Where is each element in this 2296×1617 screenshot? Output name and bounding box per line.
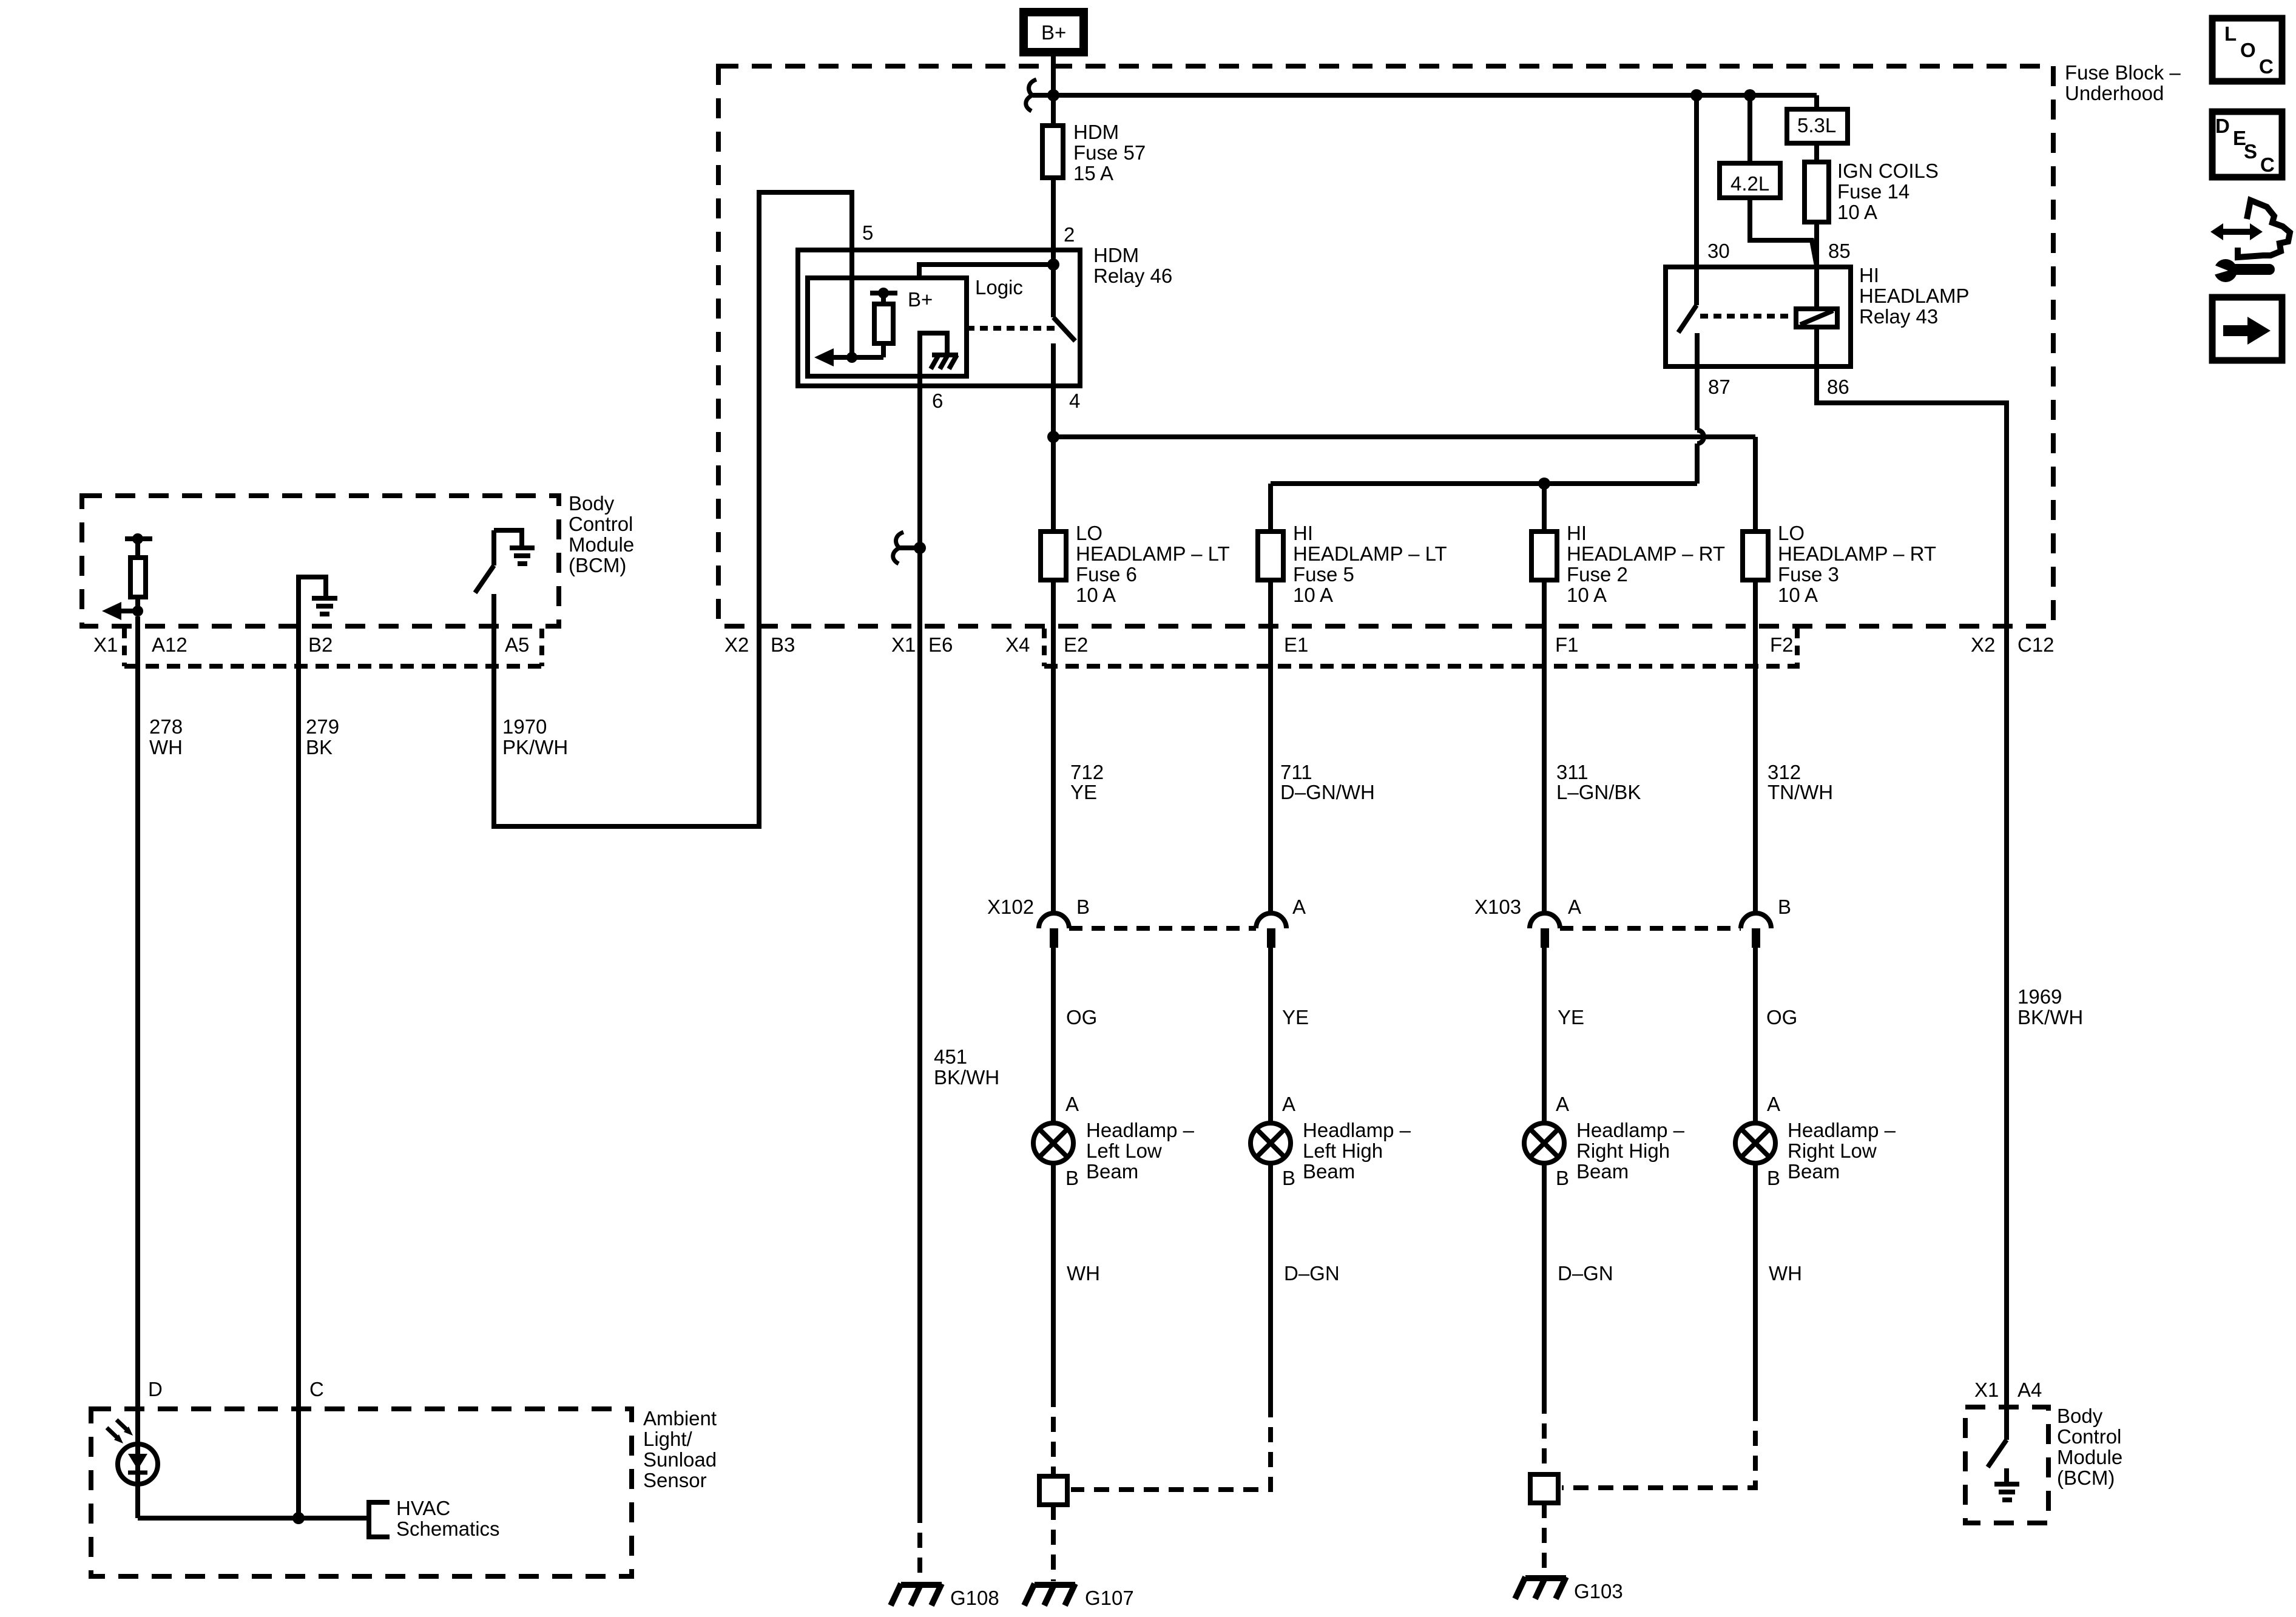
svg-text:Fuse 6: Fuse 6: [1076, 563, 1137, 586]
svg-text:86: 86: [1827, 376, 1849, 398]
svg-text:HEADLAMP – RT: HEADLAMP – RT: [1778, 542, 1936, 565]
lamp Headlamp Left Low Beam: [1033, 1093, 1195, 1189]
wire relay46 pin5 internal: [849, 250, 854, 357]
relay46 internal B+ node: [870, 288, 933, 311]
svg-text:HVAC: HVAC: [396, 1497, 450, 1519]
svg-text:BK/WH: BK/WH: [2017, 1006, 2083, 1028]
svg-text:TN/WH: TN/WH: [1768, 781, 1833, 803]
wire bus to relay43 pin30: [1694, 95, 1699, 267]
svg-text:C12: C12: [2017, 633, 2055, 656]
svg-text:Beam: Beam: [1086, 1160, 1138, 1183]
splice connector right: [1530, 1474, 1558, 1503]
wire off-page curl at B+ bus: [1026, 79, 1053, 111]
svg-text:(BCM): (BCM): [569, 554, 626, 576]
svg-text:A12: A12: [152, 633, 187, 656]
svg-text:A: A: [1568, 896, 1581, 918]
svg-text:C: C: [2260, 154, 2275, 176]
svg-text:HDM: HDM: [1093, 244, 1139, 266]
svg-text:D–GN/WH: D–GN/WH: [1280, 781, 1375, 803]
svg-text:5.3L: 5.3L: [1797, 114, 1836, 137]
wire BCM A12 down (278 WH): [135, 616, 140, 1518]
label wire 279 BK: [306, 715, 339, 758]
svg-text:L–GN/BK: L–GN/BK: [1556, 781, 1641, 803]
fuse LO HEADLAMP LT Fuse 6: [1041, 522, 1230, 606]
photodiode sensor: [107, 1420, 158, 1484]
svg-text:1970: 1970: [502, 715, 547, 738]
svg-text:5: 5: [862, 221, 873, 244]
svg-text:A4: A4: [2017, 1379, 2042, 1401]
label wire 1970 PK/WH: [502, 715, 568, 758]
svg-text:BK/WH: BK/WH: [934, 1066, 999, 1089]
relay43 dashed control line: [1700, 314, 1791, 319]
wire low beam feed bus from relay46 pin4: [1053, 437, 1755, 532]
svg-text:Body: Body: [2057, 1405, 2103, 1427]
svg-text:Module: Module: [2057, 1446, 2122, 1468]
svg-text:Beam: Beam: [1788, 1160, 1840, 1183]
svg-text:A: A: [1556, 1093, 1569, 1115]
label wire 311 L-GN/BK: [1556, 761, 1641, 803]
svg-text:711: 711: [1280, 761, 1312, 783]
wire relay43 pin86 to C12: [1817, 366, 2007, 1440]
svg-text:OG: OG: [1066, 1006, 1097, 1028]
svg-text:4: 4: [1069, 390, 1080, 412]
icon wrench: [2210, 259, 2269, 282]
svg-text:Sunload: Sunload: [643, 1448, 717, 1471]
node E6 stub junction: [893, 532, 926, 564]
wire B+ to fuse 57: [1051, 56, 1056, 126]
svg-text:Fuse 5: Fuse 5: [1293, 563, 1354, 586]
ground G108: [891, 1584, 999, 1609]
ground G107: [1024, 1584, 1134, 1609]
svg-text:HI: HI: [1859, 264, 1879, 286]
svg-text:712: 712: [1070, 761, 1104, 783]
svg-text:D: D: [2215, 115, 2230, 137]
connector X103: [1474, 896, 1791, 948]
svg-text:F2: F2: [1770, 633, 1794, 656]
svg-text:X2: X2: [724, 633, 749, 656]
wire dashed right high to splice: [1542, 1399, 1547, 1474]
svg-text:C: C: [2259, 55, 2274, 78]
node C junction: [292, 1512, 305, 1524]
label wire 451 BK/WH: [934, 1045, 999, 1089]
wire fuse6 to X102-B: [1051, 580, 1056, 915]
wire X102-A to left high bulb: [1268, 947, 1273, 1123]
svg-text:C: C: [309, 1378, 324, 1400]
svg-text:311: 311: [1556, 761, 1589, 783]
wire fuse2 to X103-A: [1542, 580, 1547, 915]
relay46 dashed control line: [967, 326, 1058, 331]
label wire 712 YE: [1070, 761, 1104, 803]
svg-text:B+: B+: [1041, 21, 1066, 44]
svg-text:Control: Control: [569, 513, 633, 535]
label wire 1969 BK/WH: [2017, 985, 2083, 1028]
svg-text:Headlamp –: Headlamp –: [1303, 1119, 1411, 1141]
svg-text:Light/: Light/: [643, 1428, 693, 1450]
svg-text:LO: LO: [1076, 522, 1102, 544]
wire dashed left high to splice: [1071, 1402, 1271, 1490]
svg-text:Left Low: Left Low: [1086, 1139, 1162, 1162]
wire relay43 pin87 with hop: [1697, 366, 1704, 484]
fuse HDM Fuse 57: [1042, 121, 1146, 184]
ground earth at BCM B2: [299, 577, 337, 626]
relay43 switch blade: [1678, 267, 1697, 366]
wire sensor bottom run: [138, 1516, 369, 1521]
wire X103-A to right high bulb: [1542, 947, 1547, 1123]
svg-text:10 A: 10 A: [1293, 584, 1333, 606]
wire X102-B to left low bulb: [1051, 947, 1056, 1123]
BCM top-left dashed box: [82, 492, 634, 626]
svg-text:X1: X1: [891, 633, 916, 656]
svg-text:Ambient: Ambient: [643, 1407, 717, 1430]
ambient light sunload sensor box: [91, 1407, 717, 1576]
lamp Headlamp Right Low Beam: [1735, 1093, 1896, 1189]
svg-text:B: B: [1778, 896, 1791, 918]
svg-text:Fuse Block –: Fuse Block –: [2065, 61, 2181, 84]
svg-text:1969: 1969: [2017, 985, 2062, 1008]
svg-text:10 A: 10 A: [1076, 584, 1116, 606]
node bus to 4.2L: [1744, 89, 1756, 101]
wire dashed splice to G107: [1051, 1505, 1056, 1581]
svg-text:4.2L: 4.2L: [1730, 172, 1769, 195]
label wire 711 D-GN/WH: [1280, 761, 1375, 803]
svg-text:Headlamp –: Headlamp –: [1788, 1119, 1896, 1141]
svg-text:Relay 43: Relay 43: [1859, 305, 1938, 328]
svg-text:X4: X4: [1005, 633, 1030, 656]
wire X103-B to right low bulb: [1753, 947, 1758, 1123]
svg-text:B3: B3: [771, 633, 795, 656]
svg-text:A: A: [1767, 1093, 1780, 1115]
svg-text:HEADLAMP – RT: HEADLAMP – RT: [1567, 542, 1725, 565]
fuse IGN COILS Fuse 14: [1805, 160, 1939, 223]
svg-text:G103: G103: [1574, 1580, 1623, 1602]
svg-text:B2: B2: [308, 633, 333, 656]
svg-text:Relay 46: Relay 46: [1093, 265, 1172, 287]
svg-text:Body: Body: [569, 492, 615, 515]
svg-text:D–GN: D–GN: [1284, 1262, 1340, 1284]
B+ power symbol: [1024, 12, 1084, 52]
svg-text:15 A: 15 A: [1073, 162, 1113, 184]
svg-text:HDM: HDM: [1073, 121, 1119, 143]
svg-text:Control: Control: [2057, 1425, 2121, 1448]
wire relay46 internal feed to logic: [919, 265, 1053, 278]
relay46 logic box: [808, 276, 1023, 376]
fuse block connector labels X2 C12: [1971, 633, 2055, 656]
label wire 312 TN/WH: [1768, 761, 1833, 803]
svg-text:Fuse 2: Fuse 2: [1567, 563, 1628, 586]
fuse HI HEADLAMP RT Fuse 2: [1531, 522, 1725, 606]
svg-text:X103: X103: [1474, 896, 1521, 918]
svg-text:E6: E6: [928, 633, 953, 656]
svg-text:YE: YE: [1282, 1006, 1309, 1028]
svg-text:451: 451: [934, 1045, 967, 1068]
svg-text:F1: F1: [1555, 633, 1579, 656]
svg-text:A: A: [1292, 896, 1306, 918]
svg-text:HI: HI: [1567, 522, 1587, 544]
relay46 switch blade: [1053, 265, 1075, 437]
svg-text:X2: X2: [1971, 633, 1995, 656]
wire fuse57 to relay46 pin2: [1051, 178, 1056, 265]
svg-text:X102: X102: [987, 896, 1034, 918]
svg-text:WH: WH: [149, 736, 183, 758]
svg-text:312: 312: [1768, 761, 1801, 783]
icon DESC box: [2212, 112, 2282, 177]
wire left high bulb down: [1268, 1163, 1273, 1402]
svg-text:2: 2: [1064, 223, 1075, 246]
wire right low bulb down: [1753, 1163, 1758, 1406]
svg-text:Beam: Beam: [1576, 1160, 1629, 1183]
ground G103: [1515, 1577, 1623, 1602]
svg-text:6: 6: [932, 390, 943, 412]
4.2L engine tag box: [1720, 163, 1780, 198]
X4 connector row: [1005, 629, 1800, 666]
svg-text:A: A: [1282, 1093, 1295, 1115]
svg-text:YE: YE: [1070, 781, 1097, 803]
wire BCM A5 to X2 B3 (1970 circuit): [494, 192, 852, 826]
svg-text:OG: OG: [1766, 1006, 1797, 1028]
fuse block connector labels X2 B3: [724, 633, 795, 656]
node bus to relay43 pin30: [1690, 89, 1703, 101]
node F1 branch: [1538, 478, 1550, 490]
svg-text:X1: X1: [93, 633, 118, 656]
svg-text:Logic: Logic: [975, 276, 1023, 299]
wire main B+ bus: [1053, 95, 1817, 109]
node pin4 junction: [1047, 431, 1059, 443]
5.3L engine tag box: [1787, 109, 1848, 143]
BCM X1 connector row: [93, 629, 542, 666]
resistor coil of relay46: [874, 304, 893, 357]
svg-text:A5: A5: [505, 633, 529, 656]
label wire 278 WH: [149, 715, 183, 758]
lamp Headlamp Right High Beam: [1524, 1093, 1685, 1189]
ground chassis inside relay46 logic: [920, 333, 958, 391]
svg-text:10 A: 10 A: [1837, 201, 1877, 223]
icon LOC box: [2212, 18, 2282, 81]
splice connector left: [1039, 1476, 1067, 1505]
svg-text:Beam: Beam: [1303, 1160, 1355, 1183]
svg-text:D–GN: D–GN: [1558, 1262, 1613, 1284]
svg-text:HEADLAMP – LT: HEADLAMP – LT: [1076, 542, 1230, 565]
svg-text:87: 87: [1708, 376, 1730, 398]
svg-text:PK/WH: PK/WH: [502, 736, 568, 758]
node pin5 to arrow line: [846, 352, 857, 363]
wire high beam feed bus: [1271, 484, 1697, 532]
svg-text:S: S: [2244, 140, 2257, 163]
svg-text:B: B: [1767, 1167, 1780, 1189]
svg-text:278: 278: [149, 715, 183, 738]
relay43 coil: [1796, 267, 1837, 366]
svg-text:Schematics: Schematics: [396, 1517, 500, 1540]
svg-text:WH: WH: [1067, 1262, 1100, 1284]
svg-text:B: B: [1065, 1167, 1079, 1189]
svg-text:Underhood: Underhood: [2065, 82, 2164, 104]
lamp Headlamp Left High Beam: [1251, 1093, 1411, 1189]
wire BCM B2 down (279 BK): [296, 626, 301, 1518]
fuse LO HEADLAMP RT Fuse 3: [1743, 522, 1936, 606]
wire right high bulb down: [1542, 1163, 1547, 1399]
fuse block connector labels X1 E6: [891, 633, 953, 656]
svg-text:LO: LO: [1778, 522, 1805, 544]
wire dashed right low to splice: [1562, 1406, 1755, 1488]
node relay46 pin2 internal: [1047, 258, 1059, 271]
BCM A12 output arrow: [102, 602, 143, 620]
wire dashed E6 to G108: [917, 1508, 922, 1581]
svg-text:Module: Module: [569, 533, 634, 556]
svg-text:Fuse 3: Fuse 3: [1778, 563, 1839, 586]
relay43 box: [1666, 264, 1970, 366]
svg-text:B: B: [1556, 1167, 1569, 1189]
svg-text:Headlamp –: Headlamp –: [1576, 1119, 1685, 1141]
svg-text:10 A: 10 A: [1778, 584, 1818, 606]
svg-text:Sensor: Sensor: [643, 1469, 707, 1491]
svg-text:BK: BK: [306, 736, 333, 758]
svg-text:HEADLAMP – LT: HEADLAMP – LT: [1293, 542, 1447, 565]
svg-text:G107: G107: [1085, 1587, 1134, 1609]
wire left low bulb down: [1051, 1163, 1056, 1392]
svg-text:X1: X1: [1974, 1379, 1999, 1401]
wire fuse5 to X102-A: [1268, 580, 1273, 915]
svg-text:D: D: [148, 1378, 163, 1400]
wire relay46 pin6 to ground run: [917, 386, 922, 1508]
BCM bottom-right connector labels X1 A4: [1974, 1379, 2042, 1401]
svg-text:HI: HI: [1293, 522, 1313, 544]
svg-text:IGN COILS: IGN COILS: [1837, 160, 1939, 182]
fuse block underhood dashed box: [718, 66, 2053, 626]
svg-text:B: B: [1282, 1167, 1295, 1189]
svg-text:WH: WH: [1769, 1262, 1802, 1284]
BCM A12 pull-up resistor: [125, 533, 152, 611]
svg-text:Left High: Left High: [1303, 1139, 1383, 1162]
relay46 logic output arrow: [814, 348, 883, 366]
fuse block label: [2065, 61, 2181, 104]
svg-text:Right High: Right High: [1576, 1139, 1670, 1162]
wire 4.2L branch to pin85: [1750, 95, 1817, 266]
fuse HI HEADLAMP LT Fuse 5: [1258, 522, 1447, 606]
icon car double arrow: [2210, 200, 2290, 257]
wire dashed left low to splice: [1051, 1392, 1056, 1476]
svg-text:10 A: 10 A: [1567, 584, 1607, 606]
svg-text:30: 30: [1707, 240, 1730, 262]
svg-text:O: O: [2240, 39, 2256, 61]
icon arrow box: [2212, 297, 2282, 360]
svg-text:Right Low: Right Low: [1788, 1139, 1877, 1162]
svg-text:A: A: [1065, 1093, 1079, 1115]
svg-text:YE: YE: [1558, 1006, 1584, 1028]
svg-text:G108: G108: [950, 1587, 999, 1609]
HVAC schematics bracket: [369, 1497, 500, 1540]
svg-text:L: L: [2224, 22, 2237, 45]
svg-text:HEADLAMP: HEADLAMP: [1859, 285, 1970, 307]
svg-text:Fuse 57: Fuse 57: [1073, 141, 1146, 164]
svg-text:E2: E2: [1064, 633, 1088, 656]
svg-text:279: 279: [306, 715, 339, 738]
svg-text:B: B: [1076, 896, 1090, 918]
wire IGN fuse to relay43 pin85: [1814, 222, 1819, 267]
node B+ junction: [1047, 89, 1059, 101]
svg-text:Fuse 14: Fuse 14: [1837, 180, 1909, 203]
BCM A5 switch: [475, 530, 535, 626]
wire fuse3 to X103-B: [1753, 580, 1758, 915]
svg-text:E1: E1: [1284, 633, 1308, 656]
svg-text:85: 85: [1828, 240, 1851, 262]
svg-text:(BCM): (BCM): [2057, 1467, 2115, 1489]
relay HDM Relay 46: [798, 244, 1172, 386]
wire dashed splice to G103: [1542, 1503, 1547, 1575]
connector X102: [987, 896, 1306, 948]
svg-text:B+: B+: [908, 288, 933, 311]
BCM A4 switch to ground: [1988, 1440, 2019, 1500]
svg-text:Headlamp –: Headlamp –: [1086, 1119, 1195, 1141]
wire 5.3L to IGN fuse: [1814, 143, 1819, 162]
BCM bottom-right dashed box: [1965, 1405, 2122, 1523]
